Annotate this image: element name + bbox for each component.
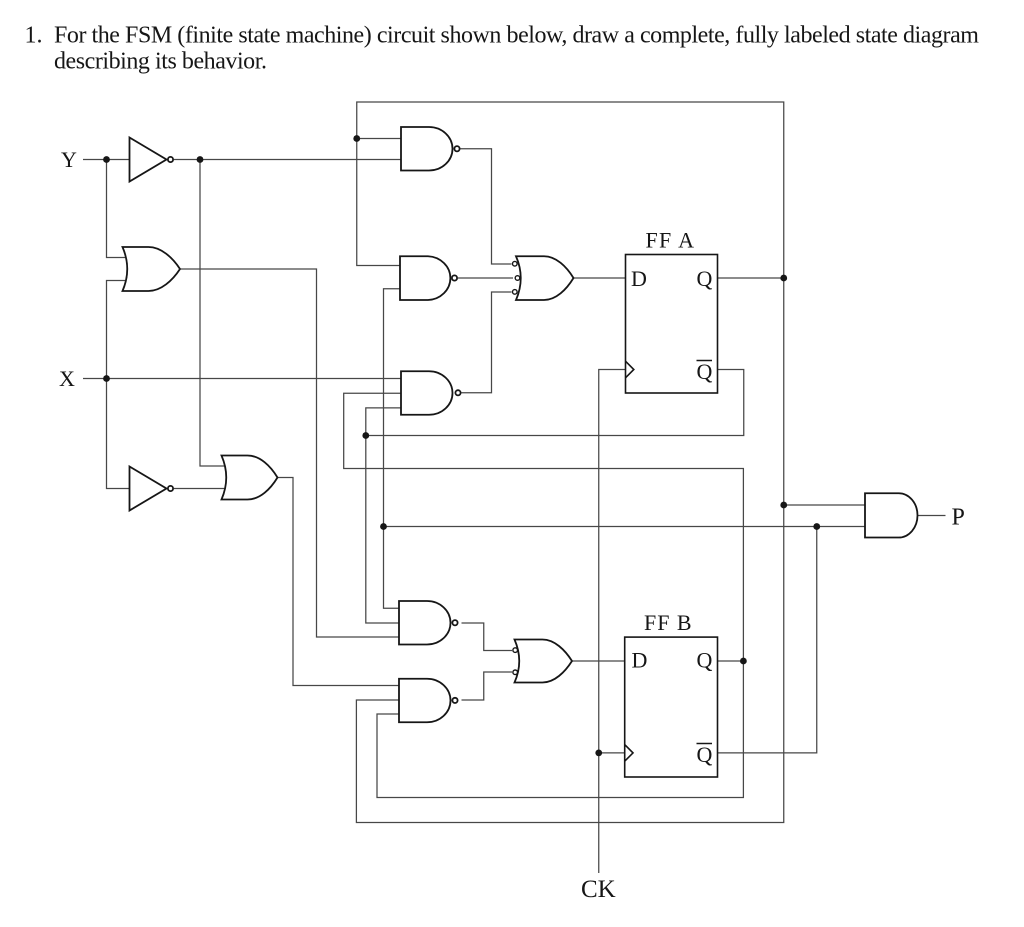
wire QbarB vertical from FFB Qbar output bbox=[718, 527, 817, 753]
NAND gate N2 bbox=[400, 256, 450, 300]
FF A clock triangle bbox=[626, 361, 634, 378]
wire QA rail branch to AND gate top input bbox=[784, 504, 865, 506]
wire NAND4 output to OR4 top input bbox=[462, 623, 513, 651]
NAND gate N1 bbox=[401, 127, 452, 171]
wire QbarB rail NAND2 bottom input down to NAND4 top input bbox=[384, 289, 402, 609]
wire X input to NAND3 top input bbox=[83, 378, 401, 380]
junction Y-OR1 bbox=[103, 156, 110, 163]
svg-text:Q: Q bbox=[697, 359, 713, 384]
NAND gate N5 (3-input) bbox=[399, 679, 450, 723]
wire QbarB branch to AND gate bottom input bbox=[384, 526, 866, 528]
svg-text:FF A: FF A bbox=[646, 228, 695, 253]
junction FFA Q bbox=[780, 275, 787, 282]
wire X branch down to inverter2 bbox=[107, 379, 130, 489]
wire QB rail up to NAND3 middle input bbox=[344, 393, 744, 661]
svg-text:Q: Q bbox=[697, 266, 713, 291]
wire Y branch down to OR1 upper input bbox=[107, 160, 129, 258]
NAND gate N3 (3-input) bbox=[401, 371, 452, 415]
inverter 1 (Y) bbox=[130, 138, 167, 182]
wire FFA Q output to QA rail bbox=[718, 277, 784, 279]
junction X bbox=[103, 375, 110, 382]
OR gate OR3 (3 bubbled inputs) bbox=[516, 256, 574, 300]
wire AND gate output to P bbox=[918, 515, 946, 517]
wire QB rail down to NAND5 bottom input bbox=[377, 661, 743, 798]
wire FFA clock from CK vertical bbox=[599, 370, 626, 874]
wire X branch up to OR1 lower input bbox=[107, 281, 129, 379]
OR gate OR1 bbox=[123, 247, 181, 291]
wire inverter1 output to NAND1 lower input bbox=[174, 159, 401, 161]
junction QbarB line bbox=[380, 523, 387, 530]
svg-text:For the FSM (finite state mach: For the FSM (finite state machine) circu… bbox=[54, 23, 979, 49]
wire inverter1 output branch down to OR2 upper input bbox=[200, 160, 227, 467]
wire OR2 output to NAND5 top input bbox=[278, 478, 401, 686]
wire Y input to inverter bbox=[83, 159, 130, 161]
wire OR1 output to NAND4 bottom input bbox=[180, 269, 399, 637]
wire OR4 output to FFB D input bbox=[572, 660, 625, 662]
svg-text:CK: CK bbox=[581, 876, 616, 903]
junction CK bbox=[595, 750, 602, 757]
junction inverter1 out bbox=[197, 156, 204, 163]
wire NAND1 output to OR3 top input bbox=[461, 149, 512, 264]
OR gate OR2 bbox=[222, 456, 278, 500]
wire top feedback rail QA to NAND1 top input bbox=[357, 102, 784, 278]
junction NAND1 top input bbox=[353, 135, 360, 142]
svg-text:X: X bbox=[59, 366, 75, 391]
svg-text:Q: Q bbox=[697, 648, 713, 673]
wire FFA Qbar output feedback to NAND3 bottom input bbox=[366, 370, 744, 436]
wire QA rail down to bottom rail and NAND5 middle input bbox=[356, 278, 783, 823]
svg-text:describing its behavior.: describing its behavior. bbox=[54, 49, 267, 75]
junction QA to AND bbox=[780, 502, 787, 509]
svg-text:FF B: FF B bbox=[644, 610, 692, 635]
FF B clock triangle bbox=[625, 745, 633, 762]
AND gate (output P) bbox=[865, 493, 918, 537]
wire NAND3 output to OR3 bottom input bbox=[462, 292, 512, 393]
wire FFB Q output bbox=[718, 660, 744, 662]
wire QbarA branch down to NAND4 middle input bbox=[366, 436, 399, 624]
svg-text:Y: Y bbox=[61, 147, 77, 172]
svg-text:1.: 1. bbox=[25, 23, 43, 49]
OR gate OR4 (2 bubbled inputs) bbox=[515, 640, 573, 683]
junction QbarB to AND bbox=[813, 523, 820, 530]
svg-text:P: P bbox=[952, 505, 965, 531]
wire OR3 output to FFA D input bbox=[574, 277, 626, 279]
wire NAND5 output to OR4 bottom input bbox=[462, 672, 513, 700]
flip-flop FF B box bbox=[625, 637, 718, 777]
NAND gate N4 (3-input) bbox=[399, 601, 450, 645]
svg-text:D: D bbox=[632, 648, 648, 673]
flip-flop FF A box bbox=[626, 255, 718, 394]
junction FFB Q bbox=[740, 658, 747, 665]
wire NAND1 top input branch down to NAND2 top input bbox=[357, 139, 401, 266]
junction QbarA feedback bbox=[362, 432, 369, 439]
inverter 2 (X) bbox=[130, 467, 167, 511]
svg-text:Q: Q bbox=[697, 742, 713, 767]
wire NAND2 output to OR3 middle input bbox=[458, 277, 513, 279]
wire FFB clock from CK vertical bbox=[599, 752, 625, 754]
wire inverter2 output to OR2 lower input bbox=[174, 488, 227, 490]
svg-text:D: D bbox=[631, 266, 647, 291]
problem statement text bbox=[25, 23, 980, 75]
